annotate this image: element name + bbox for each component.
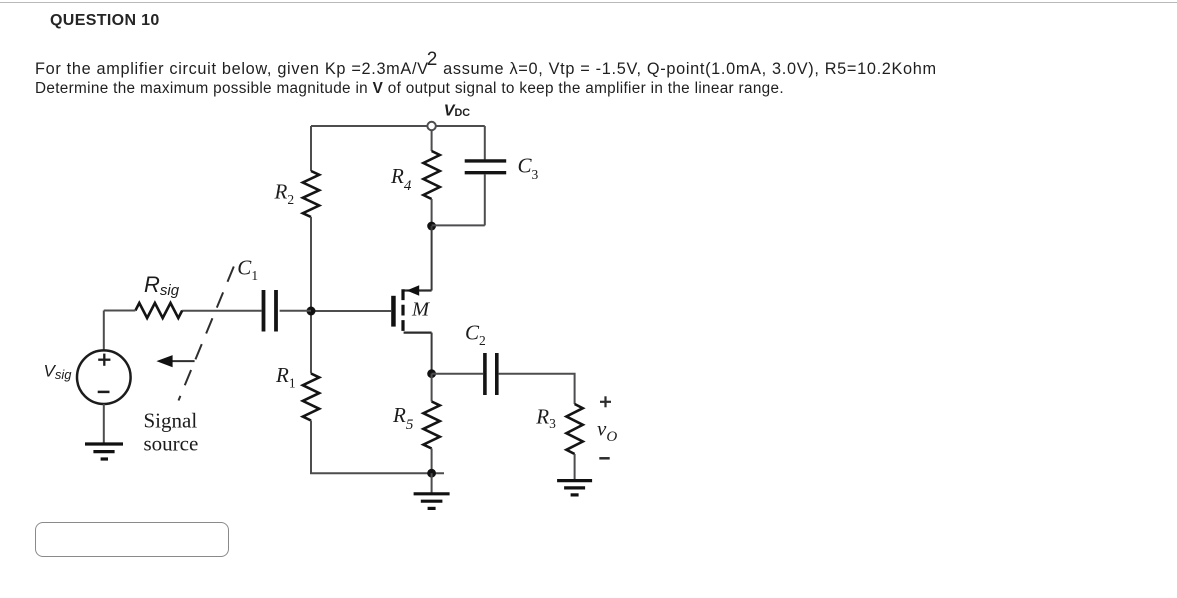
svg-text:C2: C2 (465, 321, 486, 349)
wire: down to Vsig source (103, 311, 105, 351)
wire: bottom rail to R5 ground node (310, 472, 444, 474)
resistor R3 (566, 404, 582, 454)
capacitor C3 bottom plate (465, 171, 507, 174)
node: source/R4/C3 junction dot (427, 222, 436, 231)
svg-text:Signal: Signal (144, 409, 198, 433)
svg-text:VDC: VDC (444, 102, 470, 119)
svg-text:Rsig: Rsig (144, 272, 180, 299)
svg-text:R4: R4 (390, 164, 412, 194)
label minus output (599, 457, 609, 460)
svg-text:Vsig: Vsig (44, 362, 73, 383)
transistor M source arrowhead (407, 285, 420, 296)
svg-text:R2: R2 (274, 179, 295, 207)
capacitor C3 top plate (465, 159, 507, 162)
problem text line 2 (35, 80, 784, 98)
resistor R4 (423, 151, 439, 199)
transistor M dashed channel (401, 289, 404, 332)
capacitor C1 left plate (262, 290, 266, 332)
ground symbol below R3 (557, 481, 592, 495)
annotation: left-pointing arrow (170, 360, 195, 362)
capacitor C2 left plate (483, 353, 487, 395)
ground symbol below R5 (414, 494, 450, 509)
transistor M drain bar wire (404, 332, 432, 334)
wire: R5 bottom to ground node (431, 449, 433, 474)
wire: R4 bottom to source node (431, 199, 433, 226)
wire: top VDD rail left segment (311, 125, 427, 127)
node: R5 ground junction dot (427, 469, 436, 478)
wire: C2 to R3 corner (499, 374, 575, 404)
wire: drain node to C2 (432, 373, 483, 375)
wire: top VDD rail right segment (436, 125, 485, 127)
wire: Vsig to Rsig (104, 310, 136, 312)
wire: Rsig to C1 (182, 310, 262, 312)
node: gate/C1/R2/R1 junction dot (307, 307, 316, 316)
node VDC open terminal (427, 122, 435, 130)
wire: junction to C3 bottom corner (432, 224, 485, 226)
svg-text:R3: R3 (535, 404, 556, 431)
wire: Vsig bottom to ground (103, 404, 105, 443)
label plus output (600, 396, 611, 407)
svg-text:source: source (144, 432, 199, 456)
svg-text:C3: C3 (518, 154, 539, 182)
answer input box (35, 522, 229, 557)
wire: R3 bottom to ground (574, 454, 576, 480)
wire: transistor drain down to drain node (431, 333, 433, 374)
resistor Rsig (135, 303, 182, 318)
ground symbol below Vsig (85, 444, 123, 459)
circuit labels (44, 102, 618, 458)
wire: R2 bottom to gate node (310, 217, 312, 311)
transistor M source bar wire (404, 289, 432, 291)
Vsig minus sign (98, 391, 110, 394)
voltage source Vsig circle (77, 350, 131, 404)
svg-text:vO: vO (597, 417, 617, 446)
top separator line (0, 2, 1177, 3)
wire: gate wire from C1 node to gate (311, 310, 391, 312)
wire: C3 bottom plate down to junction wire (484, 174, 486, 225)
node: drain/R5/C2 junction dot (427, 369, 436, 378)
wire: C1 output to gate node (280, 310, 311, 312)
annotation: dashed boundary line (179, 267, 234, 401)
resistor R2 (303, 171, 319, 217)
resistor R1 (303, 374, 319, 421)
wire: source node down to transistor source (431, 226, 433, 291)
wire: left branch from rail to R2 (310, 126, 312, 171)
capacitor C1 right plate (274, 290, 278, 332)
resistor R5 (423, 402, 439, 449)
svg-text:C1: C1 (237, 256, 258, 283)
Vsig plus sign (98, 354, 110, 366)
wire: VDD rail down to C3 top plate (484, 126, 486, 159)
wire: drain node to R5 (431, 374, 433, 402)
wire: VDC to R4 (431, 130, 433, 151)
problem text line 1 (35, 58, 937, 80)
wire: R1 bottom to bottom rail (310, 421, 312, 474)
wire: gate node down to R1 (310, 311, 312, 374)
svg-text:R5: R5 (392, 403, 414, 433)
heading QUESTION 10 (50, 12, 160, 30)
capacitor C2 right plate (495, 353, 499, 395)
wire: ground stem below R5 node (431, 473, 433, 493)
transistor M gate bar (391, 296, 396, 327)
svg-text:M: M (411, 298, 431, 320)
svg-text:R1: R1 (275, 363, 296, 391)
